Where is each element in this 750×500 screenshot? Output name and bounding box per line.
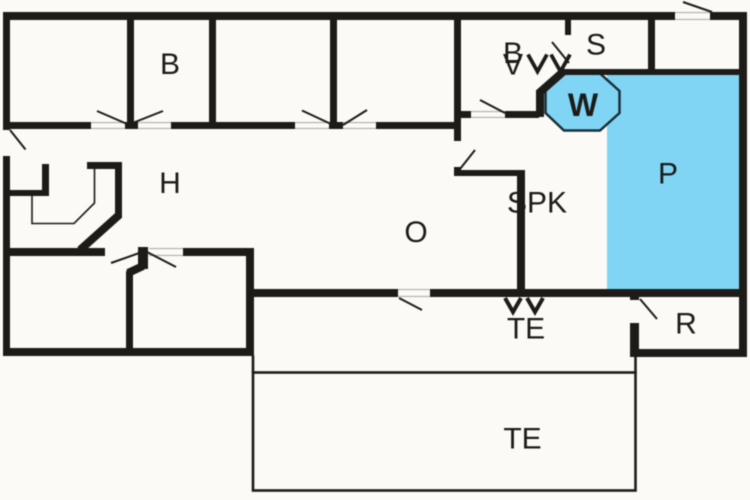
svg-text:A: A bbox=[503, 47, 523, 80]
svg-text:P: P bbox=[658, 158, 678, 191]
svg-text:SPK: SPK bbox=[507, 187, 567, 220]
svg-text:S: S bbox=[586, 29, 606, 62]
svg-text:TE: TE bbox=[503, 423, 541, 456]
svg-text:W: W bbox=[568, 87, 599, 123]
svg-text:TE: TE bbox=[507, 313, 545, 346]
svg-text:B: B bbox=[160, 48, 180, 81]
svg-text:O: O bbox=[404, 216, 427, 249]
svg-text:R: R bbox=[675, 308, 697, 341]
svg-text:H: H bbox=[159, 167, 181, 200]
